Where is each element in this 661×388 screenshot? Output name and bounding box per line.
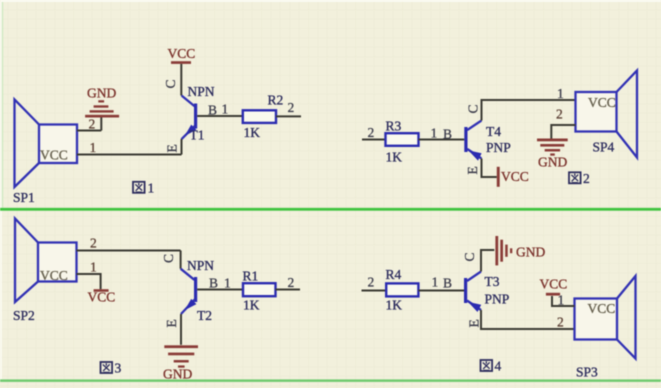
label fig2 (569, 171, 590, 186)
svg-text:GND: GND (538, 155, 567, 170)
svg-text:VCC: VCC (588, 95, 616, 110)
svg-text:1: 1 (148, 181, 155, 196)
svg-text:R3: R3 (386, 119, 402, 134)
svg-text:SP4: SP4 (593, 140, 615, 155)
svg-text:1: 1 (432, 275, 439, 290)
svg-text:2: 2 (368, 275, 375, 290)
wire T3 collector to GND (481, 250, 494, 272)
svg-text:T1: T1 (190, 128, 205, 143)
svg-text:T3: T3 (485, 274, 500, 289)
svg-text:GND: GND (163, 367, 192, 382)
speaker SP1 (13, 100, 77, 206)
transistor T4 (PNP) (464, 104, 510, 174)
svg-text:B: B (443, 276, 452, 291)
svg-text:VCC: VCC (168, 46, 196, 61)
wire SP3 pin1 (552, 296, 575, 306)
ground GND (fig2) (537, 139, 568, 170)
power VCC (T4 emitter) (497, 167, 529, 187)
svg-text:2: 2 (556, 107, 563, 122)
svg-text:T4: T4 (486, 124, 501, 139)
svg-text:VCC: VCC (540, 277, 568, 292)
wire SP2 pin1 (77, 274, 101, 289)
label fig4 (481, 359, 502, 374)
svg-text:2: 2 (90, 236, 97, 251)
separator line bottom (0, 379, 661, 382)
svg-text:B: B (443, 127, 452, 142)
svg-text:E: E (165, 144, 180, 152)
svg-text:B: B (209, 276, 218, 291)
power VCC (fig4) (540, 277, 568, 296)
label fig1 (133, 181, 154, 196)
svg-text:R1: R1 (243, 269, 259, 284)
ground GND (fig3) (163, 345, 198, 381)
wire R4 to T3 base (418, 290, 464, 292)
wire SP4 pin2 (551, 125, 575, 139)
svg-text:1: 1 (222, 102, 229, 117)
svg-text:VCC: VCC (588, 301, 616, 316)
svg-text:3: 3 (115, 361, 122, 376)
wire T4 emitter (482, 159, 497, 178)
wire T4 collector to SP4 pin1 (482, 100, 576, 121)
transistor T2 (NPN) (161, 251, 231, 345)
resistor R2 1K (243, 93, 283, 141)
svg-text:VCC: VCC (88, 290, 116, 305)
speaker SP4 (576, 71, 638, 158)
svg-text:C: C (163, 79, 178, 88)
resistor R1 1K (243, 269, 276, 313)
wire T1 base to R2 (197, 115, 243, 117)
svg-text:4: 4 (495, 359, 502, 374)
svg-text:1: 1 (431, 126, 438, 141)
svg-text:SP1: SP1 (13, 190, 35, 205)
svg-text:1: 1 (90, 260, 97, 275)
speaker SP3 (575, 276, 636, 380)
wire R3 to T4 base (419, 139, 465, 141)
svg-text:1K: 1K (243, 298, 260, 313)
svg-text:E: E (467, 319, 482, 327)
svg-text:1: 1 (557, 86, 564, 101)
separator line mid (0, 208, 661, 211)
svg-text:C: C (466, 104, 481, 113)
svg-text:1: 1 (224, 276, 231, 291)
svg-text:GND: GND (87, 86, 116, 101)
svg-text:VCC: VCC (40, 148, 68, 163)
svg-text:2: 2 (288, 100, 295, 115)
svg-text:T2: T2 (197, 308, 212, 323)
ground GND (fig1, flipped) (85, 86, 119, 131)
transistor T1 (NPN) (163, 79, 228, 154)
wire T3 emitter to SP3 pin2 (481, 310, 575, 329)
svg-text:E: E (164, 319, 179, 327)
resistor R3 1K (386, 119, 419, 165)
svg-text:E: E (465, 166, 480, 174)
wire SP1 pin2 (77, 130, 101, 132)
svg-text:2: 2 (288, 275, 295, 290)
svg-text:R4: R4 (386, 267, 402, 282)
svg-text:1K: 1K (386, 298, 403, 313)
svg-text:VCC: VCC (501, 169, 529, 184)
svg-text:PNP: PNP (485, 292, 510, 307)
svg-text:SP2: SP2 (13, 308, 35, 323)
svg-text:SP3: SP3 (576, 365, 598, 380)
svg-text:R2: R2 (268, 93, 284, 108)
svg-text:1: 1 (90, 140, 97, 155)
wire T2 base to R1 (197, 289, 243, 291)
wire SP2 pin2 to T2 collector (77, 250, 181, 252)
svg-text:PNP: PNP (486, 140, 511, 155)
svg-text:VCC: VCC (40, 268, 68, 283)
svg-text:1K: 1K (244, 125, 261, 140)
power VCC (fig1 top) (168, 46, 196, 96)
wire input (362, 139, 386, 141)
svg-text:NPN: NPN (188, 84, 215, 99)
svg-text:2: 2 (583, 171, 590, 186)
speaker SP2 (13, 219, 77, 324)
svg-text:C: C (462, 252, 477, 261)
resistor R4 1K (386, 267, 419, 313)
svg-text:2: 2 (368, 125, 375, 140)
svg-text:2: 2 (89, 117, 96, 132)
wire SP1 pin1 to T1 emitter (77, 154, 182, 156)
label fig3 (101, 361, 122, 376)
svg-text:NPN: NPN (187, 258, 214, 273)
svg-text:C: C (161, 254, 176, 263)
svg-text:2: 2 (557, 315, 564, 330)
wire input (362, 290, 387, 292)
power VCC (fig3, inverted) (88, 289, 116, 304)
ground GND (fig4, rotated) (495, 236, 545, 265)
wire R2 pin2 (276, 115, 301, 117)
transistor T3 (PNP) (462, 252, 509, 327)
svg-text:1K: 1K (386, 150, 403, 165)
svg-text:GND: GND (516, 245, 545, 260)
wire R1 pin2 (276, 289, 301, 291)
